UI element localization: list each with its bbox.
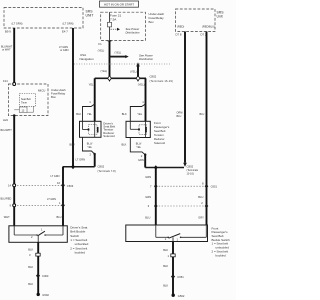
svg-text:BLK: BLK (28, 248, 33, 252)
svg-text:F14: F14 (3, 79, 8, 83)
connector label C802 terminals 16-19 (150, 75, 174, 83)
in-line connector crossing (pins 3/2) (148, 201, 209, 208)
wire color labels below driver solenoid (70, 142, 93, 149)
svg-text:H24: H24 (3, 118, 8, 122)
wire color labels at driver solenoid (76, 112, 92, 116)
ground G502 (driver) (37, 293, 50, 297)
svg-text:3: 3 (148, 204, 150, 208)
svg-text:HOT IN ON OR START: HOT IN ON OR START (104, 2, 134, 6)
continuation up-arrow branch (YEL) (130, 62, 140, 78)
driver's seat belt buckle switch S1 (9, 226, 67, 243)
svg-text:GRY: GRY (198, 215, 204, 219)
svg-text:BLU: BLU (57, 215, 62, 219)
wire W6 passenger solenoid feed (145, 78, 147, 121)
svg-text:Navigation: Navigation (80, 57, 95, 61)
wire from passenger solenoid pin 2 return (130, 138, 146, 156)
svg-text:G502: G502 (42, 293, 49, 297)
svg-text:1: 1 (177, 237, 179, 241)
svg-text:C303: C303 (42, 274, 49, 278)
ground G502 (passenger) (172, 294, 185, 298)
label front passenger's seat belt tension reducer solenoid (154, 121, 170, 145)
svg-text:D7 8: D7 8 (176, 33, 182, 37)
svg-text:Box: Box (51, 95, 56, 99)
svg-text:BLK: BLK (122, 112, 127, 116)
svg-text:or WHT: or WHT (2, 49, 11, 52)
node B horizontal splice wire passenger (145, 167, 184, 169)
svg-text:1: 1 (59, 201, 61, 205)
wire color labels below C651 (145, 195, 203, 199)
svg-text:(RED): (RED) (177, 25, 184, 29)
svg-text:BLK: BLK (76, 112, 81, 116)
svg-text:BLK: BLK (163, 264, 168, 268)
svg-text:(YEL): (YEL) (115, 51, 122, 55)
wire W10 driver buckle switch to ground (37, 242, 39, 293)
junction node J2 (open diamond terminal) (136, 76, 140, 82)
wire W4b driver return LT GRN (94, 154, 96, 167)
svg-text:8: 8 (202, 182, 204, 186)
svg-text:E4 7: E4 7 (62, 30, 68, 34)
svg-text:C802: C802 (187, 165, 194, 169)
wire from driver solenoid pin 2 return (83, 137, 96, 155)
wire color labels below passenger solenoid (122, 142, 142, 149)
label under-dash fuse/relay box (left) (51, 88, 66, 99)
svg-text:C651: C651 (177, 275, 184, 279)
wire color labels entering driver buckle switch (4, 215, 62, 219)
svg-text:C503: C503 (67, 184, 74, 188)
svg-text:WHT: WHT (4, 215, 10, 219)
wire W11 passenger buckle switch to ground (172, 242, 174, 295)
svg-text:BLU: BLU (145, 215, 150, 219)
svg-text:buckled: buckled (216, 254, 226, 258)
node A horizontal splice wire driver (63, 166, 95, 168)
svg-text:BLU: BLU (198, 195, 203, 199)
bus wire node J1 horizontal YEL distribution (95, 77, 146, 79)
svg-text:(YEL): (YEL) (130, 69, 137, 73)
svg-text:GRN: GRN (145, 175, 151, 179)
svg-text:C651: C651 (211, 184, 218, 188)
wire color labels below C503 (1, 198, 57, 201)
svg-text:2: 2 (141, 154, 143, 158)
wire W7 from SRS unit D7-8 down to splice arrow (184, 32, 186, 163)
svg-text:16: 16 (57, 181, 60, 185)
svg-text:1: 1 (142, 100, 144, 104)
svg-text:7.5A: 7.5A (110, 17, 117, 21)
svg-text:(RED/BLU): (RED/BLU) (202, 25, 215, 29)
svg-text:Distribution: Distribution (126, 30, 140, 34)
svg-text:2: 2 (165, 237, 167, 241)
under-dash fuse/relay box (dashed enclosure) (101, 12, 146, 40)
svg-text:(Terminals 7-8): (Terminals 7-8) (98, 170, 116, 173)
svg-text:Solenoid: Solenoid (154, 141, 165, 145)
wire color label W1 (1, 46, 13, 52)
wire color labels entering passenger buckle switch (145, 215, 204, 219)
svg-text:UNIT: UNIT (86, 14, 94, 18)
svg-text:GRN: GRN (145, 195, 151, 199)
label driver's seat belt buckle switch (70, 225, 88, 254)
SRS unit U1 (driver side, dashed enclosure) (4, 8, 93, 29)
junction node A (solid diamond splice) (71, 164, 75, 169)
fuse element F21 on feed wire (108, 12, 112, 40)
terminal ring W1 into MICU (F14) (13, 83, 16, 86)
connector label C802 terminals 13-16 (187, 165, 199, 176)
svg-text:BLU: BLU (177, 115, 182, 118)
svg-text:BLK: BLK (28, 265, 33, 269)
svg-text:YEL: YEL (87, 146, 92, 149)
svg-text:Box: Box (149, 20, 155, 24)
svg-text:1: 1 (41, 228, 43, 232)
svg-text:13-16): 13-16) (187, 173, 194, 176)
svg-text:B9 9: B9 9 (5, 30, 11, 34)
svg-text:BLK: BLK (28, 282, 33, 286)
svg-text:YEL: YEL (136, 146, 141, 149)
svg-text:YEL: YEL (89, 83, 94, 87)
in-line connector crossing (pins 9/1) (10, 201, 65, 208)
svg-text:(LT GRN): (LT GRN) (12, 21, 23, 25)
svg-text:F1: F1 (98, 42, 102, 46)
svg-text:(Terminals 16-19): (Terminals 16-19) (150, 79, 174, 83)
svg-text:Timer: Timer (21, 101, 27, 104)
variant boundary dotted line (USA Navigation) (74, 53, 170, 64)
terminal label (LT GRN) pin E4 7 (62, 21, 74, 33)
svg-text:YEL: YEL (87, 112, 92, 116)
in-line connector C303 on W10 (36, 274, 49, 279)
solenoid L1 driver's seat belt tension reducer (80, 121, 102, 137)
svg-text:(YEL): (YEL) (138, 83, 145, 87)
connector label C802 terminals 7-10 (98, 165, 116, 173)
branch arrow to See Power Distribution (110, 51, 154, 61)
wire W9 passenger buckle switch feed (155, 168, 157, 225)
SRS unit U2 (passenger side, dashed enclosure) (176, 9, 225, 32)
in-line connector C651 on W11 (171, 274, 184, 279)
svg-text:LT GRN: LT GRN (76, 157, 86, 161)
svg-text:LT GRN: LT GRN (47, 198, 56, 201)
svg-text:GRN: GRN (138, 158, 144, 162)
label under-dash fuse/relay box (149, 12, 165, 24)
svg-text:or GRN: or GRN (60, 49, 69, 52)
svg-text:MICU: MICU (38, 88, 45, 92)
svg-text:13: 13 (22, 109, 25, 112)
wire color label W7 (177, 112, 184, 118)
wire W5 driver buckle switch feed (62, 167, 64, 226)
terminal label (RED) pin D7 8 (176, 25, 185, 37)
wire W3 fuse output YEL down to node J1 (109, 40, 111, 78)
terminal label (RED/BLU) pin D7 2 (201, 25, 216, 37)
MICU (dashed enclosure inside under-dash box) (3, 79, 48, 122)
fuse F21 value label (110, 13, 121, 21)
svg-text:BLU: BLU (70, 142, 75, 146)
terminal junction pin 3 (29, 253, 40, 257)
terminal label (LT GRN) pin B9 9 (5, 21, 23, 33)
svg-text:BLU/RED: BLU/RED (1, 198, 12, 201)
junction node B (solid diamond splice) (154, 165, 158, 170)
terminal tick F1 at fuse box exit (98, 41, 111, 46)
svg-text:BLU: BLU (200, 113, 205, 116)
svg-text:(YEL): (YEL) (98, 49, 105, 53)
wire W2 from SRS unit E4-7 down to splice node A (72, 28, 74, 167)
label front passenger's seat belt buckle switch (212, 226, 231, 257)
terminal ring on W1 at lower crossing (pin 9) (13, 204, 16, 207)
svg-text:BLK: BLK (163, 248, 168, 252)
label driver's seat belt tension reducer solenoid (103, 121, 115, 138)
solenoid L2 front passenger's seat belt tension reducer (126, 121, 150, 137)
svg-text:BLK: BLK (122, 142, 127, 146)
wire W1 from SRS unit B9-9 down to MICU (13, 28, 15, 84)
svg-text:3: 3 (29, 253, 31, 257)
in-line connector C651 crossing (pins 7/8) (150, 182, 218, 189)
svg-text:7: 7 (150, 184, 152, 188)
svg-text:14: 14 (8, 184, 11, 188)
see power distribution pointer (inside fuse box) (111, 27, 141, 35)
seat belt timer (inner dashed block of MICU) (14, 94, 35, 113)
svg-text:1: 1 (89, 100, 91, 104)
svg-text:2: 2 (201, 201, 203, 205)
svg-text:Distribution: Distribution (139, 57, 153, 61)
branch wire to passenger solenoid second pin (130, 104, 146, 122)
wire W8 from SRS unit D7-2 down to passenger buckle switch (206, 32, 208, 226)
svg-text:1: 1 (168, 254, 170, 258)
svg-text:C802: C802 (150, 75, 157, 79)
svg-text:LT GRN: LT GRN (51, 175, 60, 178)
svg-text:(YEL): (YEL) (101, 69, 108, 73)
terminal ring on W1 at C503 (pin 14) (13, 184, 16, 187)
wire W4 driver solenoid feed (94, 78, 96, 121)
svg-text:buckled: buckled (75, 251, 86, 255)
branch wire to driver solenoid second pin (83, 104, 96, 122)
svg-text:Unit: Unit (217, 15, 223, 19)
wire W1 lower segment MICU to buckle switch (13, 116, 15, 226)
svg-text:(LT GRN): (LT GRN) (63, 21, 74, 25)
splice arrow W7 joins node B (183, 163, 187, 167)
svg-text:2: 2 (90, 153, 92, 157)
wire color label W2 (59, 46, 69, 52)
svg-text:G502: G502 (178, 294, 185, 298)
svg-text:9: 9 (10, 203, 12, 207)
svg-text:YEL: YEL (137, 112, 142, 116)
wire color labels at passenger solenoid (122, 112, 143, 116)
power tag HOT IN ON OR START (100, 1, 139, 7)
svg-text:C802: C802 (98, 165, 105, 169)
junction node J1 (open diamond terminal) (108, 76, 112, 82)
terminal junction pin 1 (168, 254, 176, 258)
front passenger's seat belt buckle switch S2 (126, 225, 208, 242)
in-line connector C503 crossing (pins 14/16) (8, 181, 74, 188)
svg-text:BLU/WHT: BLU/WHT (1, 129, 13, 132)
svg-text:BLK: BLK (163, 283, 168, 287)
wire W6b passenger return GRN (144, 155, 146, 168)
svg-text:Solenoid: Solenoid (103, 134, 115, 138)
